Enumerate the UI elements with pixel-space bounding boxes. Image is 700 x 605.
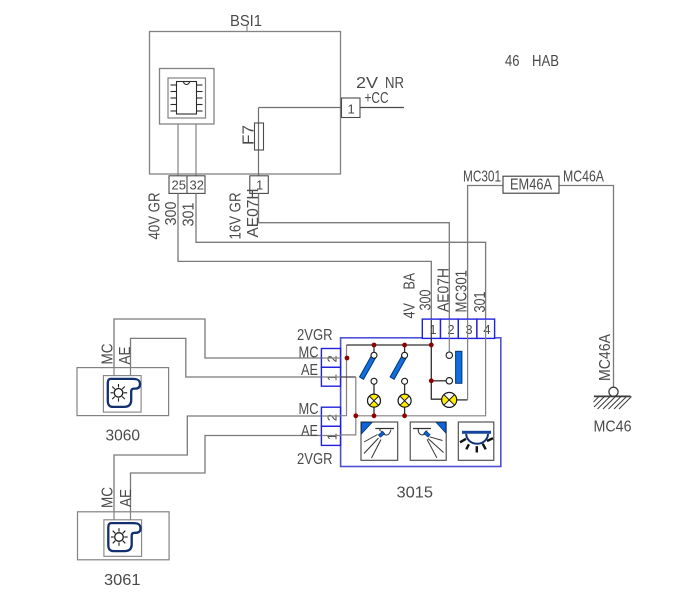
svg-text:BA: BA (402, 272, 419, 289)
svg-text:EM46A: EM46A (510, 177, 553, 194)
svg-text:46: 46 (505, 53, 520, 70)
svg-text:BSI1: BSI1 (230, 13, 262, 30)
svg-text:+CC: +CC (365, 90, 389, 107)
svg-text:2VGR: 2VGR (297, 327, 333, 344)
svg-text:MC: MC (299, 401, 319, 418)
svg-text:AE: AE (301, 423, 318, 440)
svg-text:301: 301 (181, 203, 198, 227)
svg-text:1: 1 (325, 374, 340, 381)
svg-text:16V GR: 16V GR (228, 193, 245, 240)
svg-text:4: 4 (483, 322, 490, 337)
svg-text:3061: 3061 (104, 572, 141, 589)
svg-text:3: 3 (465, 322, 472, 337)
svg-text:2VGR: 2VGR (297, 451, 333, 468)
svg-text:300: 300 (418, 289, 435, 310)
svg-text:2: 2 (325, 414, 340, 421)
svg-text:MC: MC (299, 344, 319, 361)
svg-text:3060: 3060 (106, 428, 141, 445)
svg-text:MC301: MC301 (454, 270, 471, 313)
svg-text:HAB: HAB (532, 53, 559, 70)
svg-text:1: 1 (429, 322, 436, 337)
svg-text:AE07H: AE07H (245, 189, 262, 238)
svg-text:MC46A: MC46A (597, 333, 614, 381)
svg-text:MC46A: MC46A (563, 169, 605, 186)
svg-text:1: 1 (325, 433, 340, 440)
svg-text:4V: 4V (402, 302, 419, 318)
svg-text:2: 2 (447, 322, 454, 337)
svg-text:AE07H: AE07H (436, 268, 453, 312)
svg-text:25: 25 (172, 178, 186, 193)
svg-text:AE: AE (117, 347, 134, 365)
svg-text:AE: AE (118, 489, 135, 507)
svg-text:F7: F7 (241, 125, 258, 145)
svg-text:2: 2 (325, 355, 340, 362)
svg-text:MC: MC (100, 344, 117, 365)
svg-text:MC46: MC46 (594, 419, 632, 436)
svg-text:AE: AE (301, 362, 318, 379)
svg-text:MC: MC (100, 487, 117, 508)
svg-text:3015: 3015 (397, 485, 434, 502)
svg-text:1: 1 (348, 102, 355, 117)
svg-text:301: 301 (472, 292, 489, 313)
svg-text:MC301: MC301 (463, 169, 501, 186)
svg-text:40V GR: 40V GR (147, 193, 164, 240)
svg-text:32: 32 (190, 178, 204, 193)
